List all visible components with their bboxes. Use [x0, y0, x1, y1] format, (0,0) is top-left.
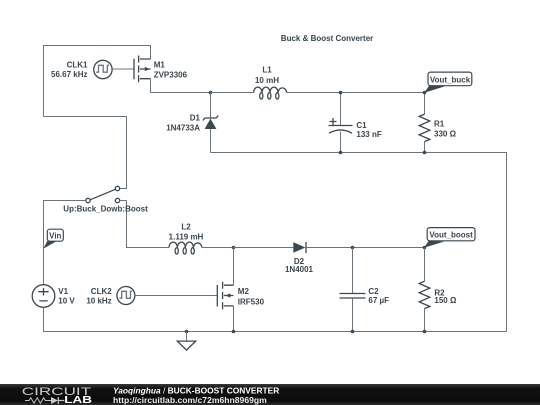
node A junction [209, 91, 213, 95]
wire L2 to node B [202, 247, 234, 249]
node C1 bottom [339, 151, 343, 155]
wire node A to L1 [211, 92, 254, 94]
flag Vout_boost [424, 228, 475, 248]
node ground stem [185, 330, 189, 334]
svg-text:D1: D1 [190, 114, 201, 123]
svg-text:ZVP3306: ZVP3306 [154, 71, 188, 80]
svg-text:133 nF: 133 nF [356, 130, 381, 139]
voltage source CLK2 [117, 287, 135, 305]
wire D2 to C2 node [306, 247, 353, 249]
svg-text:CLK2: CLK2 [91, 287, 112, 296]
svg-text:10 kHz: 10 kHz [86, 297, 111, 306]
node R2 bottom [423, 330, 427, 334]
svg-text:150 Ω: 150 Ω [434, 296, 457, 305]
svg-text:LAB: LAB [64, 393, 92, 405]
wire switch pole to left rail [44, 201, 86, 285]
wire V1 to ground rail [44, 307, 187, 331]
wire ground rail [187, 331, 507, 333]
node B junction [232, 246, 236, 250]
footer bar [0, 384, 540, 405]
wire switch throw down to L2 [127, 201, 170, 248]
svg-text:http://circuitlab.com/c72m6hn8: http://circuitlab.com/c72m6hn8969gm [113, 394, 267, 404]
diode D1 zener [203, 93, 218, 153]
svg-text:L1: L1 [262, 66, 272, 75]
inductor L1 [254, 87, 287, 92]
wire C2 node to R2 node [353, 247, 425, 249]
svg-text:CLK1: CLK1 [67, 61, 88, 70]
diode D2 [293, 242, 306, 253]
svg-text:M1: M1 [154, 61, 166, 70]
svg-text:C2: C2 [368, 287, 379, 296]
svg-text:Vin: Vin [49, 231, 61, 240]
svg-text:V1: V1 [58, 287, 68, 296]
svg-text:67 µF: 67 µF [368, 296, 389, 305]
svg-text:Vout_buck: Vout_buck [430, 75, 471, 84]
logo squiggle resistor+diode [25, 397, 51, 402]
svg-text:56.67 kHz: 56.67 kHz [51, 70, 87, 79]
resistor R2 [419, 248, 430, 332]
flag Vin [43, 229, 63, 249]
ground [177, 332, 195, 351]
voltage source V1 [32, 285, 55, 308]
svg-text:L2: L2 [181, 223, 191, 232]
node C2 bottom [351, 330, 355, 334]
wire L1 to C1 node [287, 92, 341, 94]
svg-text:C1: C1 [356, 121, 367, 130]
wire buck bottom rail [211, 153, 507, 332]
node Vout_boost [423, 246, 427, 250]
svg-text:1N4001: 1N4001 [285, 265, 314, 274]
capacitor C1 polarized [329, 93, 353, 153]
svg-text:Buck & Boost Converter: Buck & Boost Converter [281, 34, 373, 43]
svg-text:10 mH: 10 mH [255, 76, 279, 85]
wire CLK1 to M1 gate [112, 68, 134, 70]
svg-text:IRF530: IRF530 [238, 298, 265, 307]
svg-text:M2: M2 [238, 287, 250, 296]
switch SW1 [86, 186, 127, 202]
wire M1 drain to node A [151, 92, 211, 94]
svg-text:1.119 mH: 1.119 mH [169, 232, 204, 241]
svg-text:1N4733A: 1N4733A [166, 124, 200, 133]
transistor M2 NMOS [217, 248, 233, 332]
svg-text:10 V: 10 V [58, 297, 75, 306]
wire CLK2 to M2 gate [135, 295, 217, 297]
capacitor C2 [340, 248, 366, 332]
svg-text:Vout_boost: Vout_boost [429, 231, 473, 240]
node Vout_buck [423, 91, 427, 95]
transistor M1 PMOS [134, 46, 151, 93]
svg-text:Up:Buck_Dowb:Boost: Up:Buck_Dowb:Boost [63, 204, 148, 213]
wire mid horizontal to switch [44, 117, 127, 189]
voltage source CLK1 [94, 60, 112, 78]
resistor R1 [419, 93, 430, 153]
svg-text:330 Ω: 330 Ω [434, 129, 457, 138]
flag Vout_buck [424, 72, 472, 93]
node C2 top [351, 246, 355, 250]
wire top rail [44, 46, 151, 117]
node C1 top [339, 91, 343, 95]
wire node B to D2 [234, 247, 294, 249]
node M2 source [232, 330, 236, 334]
node R1 bottom [423, 151, 427, 155]
inductor L2 [169, 242, 202, 247]
svg-text:R1: R1 [434, 120, 445, 129]
wire C1 node to R1 node [341, 92, 425, 94]
